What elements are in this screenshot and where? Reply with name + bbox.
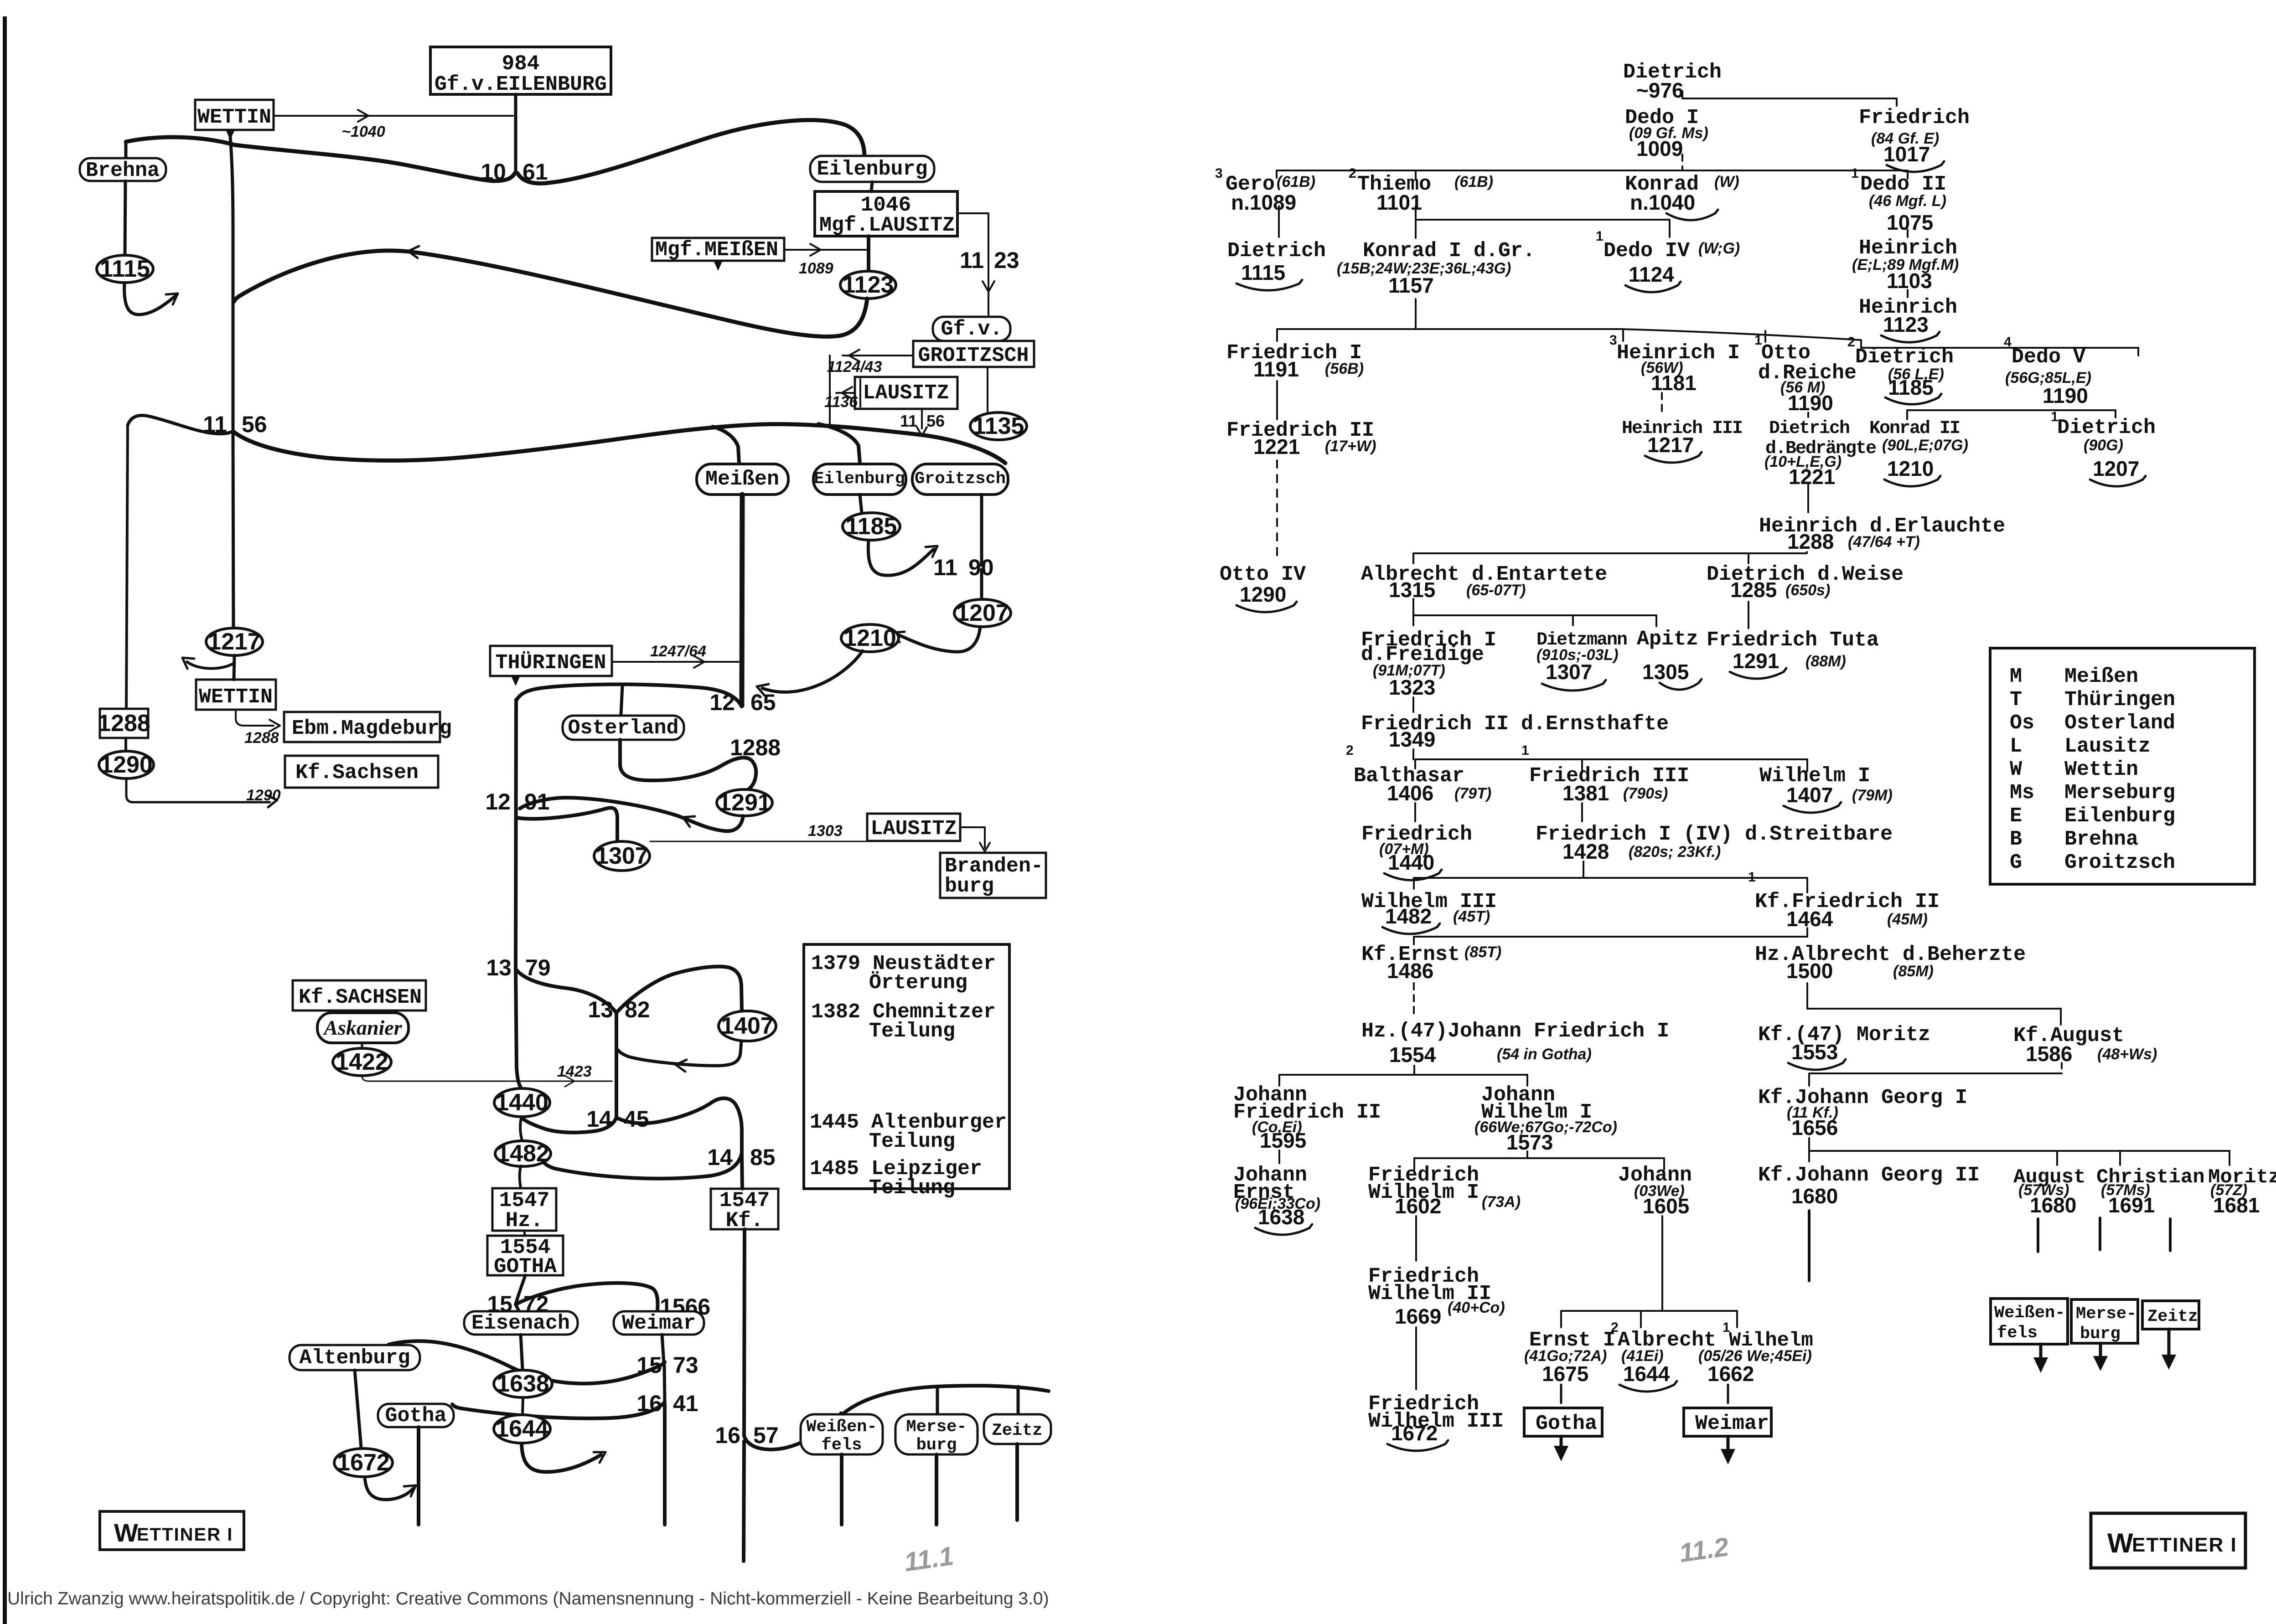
wire 1662 down bbox=[1727, 1385, 1729, 1403]
arrowhead 1136 bbox=[842, 387, 852, 393]
svg-text:1288: 1288 bbox=[98, 710, 150, 737]
svg-text:GROITZSCH: GROITZSCH bbox=[918, 344, 1029, 367]
svg-text:1: 1 bbox=[1851, 166, 1859, 181]
svg-text:1315: 1315 bbox=[1389, 578, 1435, 602]
svg-text:(61B): (61B) bbox=[1454, 173, 1493, 191]
svg-text:1307: 1307 bbox=[595, 843, 648, 869]
ellipse 1644 bbox=[494, 1415, 550, 1443]
svg-text:1691: 1691 bbox=[2108, 1193, 2155, 1217]
svg-text:Hz.(47)Johann Friedrich I: Hz.(47)Johann Friedrich I bbox=[1361, 1020, 1669, 1043]
svg-text:Ebm.Magdeburg: Ebm.Magdeburg bbox=[292, 717, 452, 740]
arrow below Gotha bbox=[1560, 1436, 1563, 1453]
svg-text:1605: 1605 bbox=[1643, 1194, 1689, 1218]
wire Streitbare children line bbox=[1414, 878, 1807, 892]
wire GROITZSCH down to 1135 bbox=[987, 367, 988, 412]
ellipse 1217 bbox=[206, 628, 263, 655]
wire 1657 swoosh to Weissenfels/Merseburg/Zeitz bbox=[744, 1386, 1049, 1449]
svg-text:Dietrich: Dietrich bbox=[2057, 416, 2156, 439]
svg-text:11: 11 bbox=[933, 555, 957, 580]
stadium Eilenburg (2nd) bbox=[813, 464, 906, 495]
arrowhead 1644 tail bbox=[600, 1452, 605, 1463]
wire THUERINGEN 1247/64 arrow bbox=[612, 661, 739, 663]
box 1288 bbox=[100, 709, 148, 738]
svg-text:45: 45 bbox=[624, 1106, 649, 1132]
box 1547 Hz. bbox=[492, 1188, 556, 1231]
wire dashed Friedrich II to Otto IV bbox=[1276, 460, 1278, 561]
svg-text:1288: 1288 bbox=[244, 729, 279, 747]
svg-text:1103: 1103 bbox=[1887, 269, 1932, 293]
svg-text:Gotha: Gotha bbox=[1536, 1412, 1597, 1435]
svg-text:Kf.(47) Moritz: Kf.(47) Moritz bbox=[1758, 1023, 1930, 1047]
arrowhead on 1123 swoosh bbox=[408, 246, 419, 251]
box LAUSITZ (2nd) bbox=[867, 814, 960, 841]
wire Dedo II column ticks bbox=[1907, 177, 1909, 297]
wire drop Zeitz bbox=[1017, 1387, 1020, 1417]
svg-text:L: L bbox=[2010, 735, 2022, 758]
box THUERINGEN bbox=[490, 646, 612, 676]
wire WETTIN to Eilenburg trunk (marriage ~1040) bbox=[274, 115, 513, 117]
arrow below Zeitz bbox=[2167, 1329, 2171, 1362]
wire 1303 to LAUSITZ2 bbox=[650, 841, 866, 842]
svg-text:T: T bbox=[2010, 688, 2022, 711]
box Kf.SACHSEN (Askanier) bbox=[293, 980, 426, 1010]
svg-text:Groitzsch: Groitzsch bbox=[2064, 851, 2175, 874]
svg-text:G: G bbox=[2010, 851, 2022, 874]
arrowhead 1089 bbox=[810, 250, 821, 256]
svg-text:(47/64 +T): (47/64 +T) bbox=[1848, 533, 1920, 551]
wire Groitzsch trunk bbox=[980, 495, 983, 565]
wire 1382 trunk down bbox=[615, 1014, 618, 1118]
wire Thueringen trunk down to 1379 bbox=[516, 700, 516, 969]
wire Friedrich III down bbox=[1581, 803, 1583, 821]
wire Askanier to 1422 bbox=[361, 1043, 363, 1048]
wire GROITZSCH 1124/43 return bbox=[843, 355, 913, 356]
wire trunk x511 (Wettin main line) bbox=[230, 137, 233, 429]
wire 1115 tail bbox=[124, 283, 175, 314]
wire 1675 down bbox=[1560, 1385, 1562, 1403]
svg-text:1185: 1185 bbox=[1888, 376, 1934, 399]
wire Ernsthafte children line bbox=[1413, 749, 1807, 771]
box 1554 GOTHA bbox=[487, 1236, 563, 1275]
wire drop to Meissen stadium bbox=[713, 427, 739, 463]
svg-text:Weißen-: Weißen- bbox=[1994, 1304, 2065, 1323]
svg-text:1190: 1190 bbox=[2043, 384, 2088, 407]
wire Heinrich I dashed to Heinrich III bbox=[1661, 393, 1663, 416]
svg-text:1595: 1595 bbox=[1260, 1129, 1306, 1152]
svg-text:Merse-: Merse- bbox=[906, 1418, 967, 1437]
box Kf.Sachsen bbox=[285, 756, 438, 788]
svg-text:Brehna: Brehna bbox=[86, 159, 160, 182]
svg-text:Kf.Sachsen: Kf.Sachsen bbox=[295, 761, 419, 784]
svg-text:Friedrich III: Friedrich III bbox=[1529, 764, 1689, 788]
svg-text:1124: 1124 bbox=[1629, 263, 1674, 286]
svg-text:1305: 1305 bbox=[1642, 660, 1689, 684]
svg-text:79: 79 bbox=[525, 955, 551, 980]
svg-text:(40+Co): (40+Co) bbox=[1448, 1299, 1505, 1316]
wire drop to Eilenburg stadium bbox=[818, 424, 860, 463]
box WETTINER I (left) bbox=[100, 1511, 244, 1550]
svg-text:Teilung: Teilung bbox=[869, 1020, 955, 1043]
wire 1482 to 1547 Hz bbox=[520, 1166, 521, 1188]
svg-text:1675: 1675 bbox=[1542, 1362, 1588, 1386]
box Merseburg (right) bbox=[2071, 1299, 2138, 1343]
ellipse 1185 bbox=[843, 513, 900, 540]
svg-text:(650s): (650s) bbox=[1785, 582, 1830, 599]
arrowhead 1185 tail bbox=[932, 546, 937, 557]
arrowhead 1672 tail bbox=[411, 1485, 416, 1496]
wire Altenburg swoosh 1573 bbox=[388, 1341, 665, 1383]
wire Brehna to 1115 bbox=[125, 181, 125, 256]
pointer under THUERINGEN bbox=[512, 677, 520, 686]
svg-text:B: B bbox=[2010, 828, 2022, 851]
svg-text:13: 13 bbox=[486, 955, 512, 980]
wire Johann children line bbox=[1561, 1311, 1737, 1327]
wire dashed below 1009 bbox=[1681, 155, 1683, 170]
wire 1136 arrow from LAUSITZ bbox=[836, 392, 855, 394]
svg-text:1217: 1217 bbox=[208, 629, 261, 655]
wire Merseburg tail bbox=[935, 1454, 938, 1525]
box Gotha (right) bbox=[1524, 1408, 1602, 1436]
wire 1207 tail bbox=[897, 627, 980, 652]
svg-text:56: 56 bbox=[926, 412, 945, 430]
smile under 1217 (right) bbox=[1645, 452, 1702, 463]
svg-text:Konrad I d.Gr.: Konrad I d.Gr. bbox=[1363, 239, 1535, 263]
svg-text:Hz.: Hz. bbox=[506, 1209, 543, 1232]
wire Thiemo children line bbox=[1416, 206, 1670, 238]
svg-text:41: 41 bbox=[673, 1391, 698, 1416]
svg-text:1672: 1672 bbox=[337, 1449, 390, 1476]
svg-text:LAUSITZ: LAUSITZ bbox=[863, 382, 949, 405]
svg-text:1638: 1638 bbox=[1258, 1205, 1304, 1229]
ellipse 1482 bbox=[495, 1141, 551, 1166]
svg-text:Ms: Ms bbox=[2010, 781, 2034, 804]
svg-text:Osterland: Osterland bbox=[2064, 711, 2175, 735]
wire 1641 sweep to Gotha bbox=[452, 1402, 665, 1418]
svg-text:1440: 1440 bbox=[1388, 851, 1434, 874]
svg-text:1680: 1680 bbox=[2030, 1193, 2076, 1217]
smile under 1123 (right) bbox=[1881, 332, 1940, 342]
svg-text:1680: 1680 bbox=[1791, 1184, 1838, 1208]
box legend territories bbox=[1990, 648, 2255, 884]
svg-text:Lausitz: Lausitz bbox=[2064, 735, 2151, 758]
svg-text:1290: 1290 bbox=[1240, 583, 1286, 606]
svg-text:(46 Mgf. L): (46 Mgf. L) bbox=[1869, 192, 1946, 210]
svg-text:11: 11 bbox=[900, 412, 917, 430]
smile under n.1040 bbox=[1666, 210, 1718, 220]
wire into Brehna bbox=[124, 142, 128, 158]
wire WETTIN2 to Ebm.Magdeburg bbox=[236, 710, 274, 726]
stadium Groitzsch bbox=[912, 464, 1008, 495]
svg-text:57: 57 bbox=[753, 1423, 779, 1448]
wire 1221 to Erlauchte bbox=[1807, 485, 1809, 512]
wire 1123 return swoosh to left trunk bbox=[234, 251, 867, 337]
arrowhead 1423 bbox=[565, 1081, 574, 1087]
svg-text:1428: 1428 bbox=[1562, 840, 1609, 863]
svg-text:1207: 1207 bbox=[2093, 457, 2139, 480]
arrowhead 1217 return bbox=[182, 658, 194, 659]
svg-text:2: 2 bbox=[1847, 335, 1855, 350]
stadium Eisenach bbox=[464, 1311, 578, 1335]
wire 1485 sweep to 1482 bbox=[543, 1153, 742, 1179]
ellipse 1291 bbox=[717, 789, 772, 816]
box Zeitz (right) bbox=[2142, 1301, 2199, 1329]
svg-text:1288: 1288 bbox=[1787, 530, 1834, 553]
ellipse 1422 bbox=[333, 1048, 391, 1076]
wire 1210 tail to Meissen trunk bbox=[762, 651, 863, 692]
svg-text:Kf.Johann Georg II: Kf.Johann Georg II bbox=[1758, 1164, 1980, 1187]
wire dashed under 1586 bbox=[2061, 1063, 2063, 1072]
smile under 1440 (right) bbox=[1384, 870, 1442, 880]
smile under 1207 (right) bbox=[2090, 476, 2146, 486]
svg-text:1017: 1017 bbox=[1883, 142, 1930, 166]
svg-text:Thüringen: Thüringen bbox=[2064, 688, 2175, 711]
svg-text:1207: 1207 bbox=[956, 600, 1009, 626]
ellipse 1638 bbox=[494, 1370, 552, 1397]
svg-text:Merse-: Merse- bbox=[2076, 1304, 2136, 1324]
stadium Gotha bbox=[378, 1404, 454, 1427]
svg-text:Kf.Friedrich II: Kf.Friedrich II bbox=[1755, 890, 1940, 913]
wire left vertical to 1288 box bbox=[126, 425, 128, 708]
wire Johann Georg I children line bbox=[1809, 1138, 2229, 1165]
wire 1638 to 1644 bbox=[522, 1397, 523, 1414]
svg-text:65: 65 bbox=[750, 690, 776, 715]
svg-text:Friedrich Tuta: Friedrich Tuta bbox=[1707, 629, 1879, 652]
pointer under WETTIN bbox=[226, 131, 234, 140]
wire Brehna-line merges 1156 bbox=[128, 415, 233, 433]
svg-text:ETTINER I: ETTINER I bbox=[2132, 1534, 2237, 1556]
wire 1217 return bbox=[187, 662, 234, 669]
wire to Johann Georg I bbox=[1809, 1073, 2062, 1086]
svg-text:3: 3 bbox=[1609, 333, 1617, 348]
box GROITZSCH bbox=[913, 341, 1034, 367]
stadium Osterland bbox=[563, 716, 684, 740]
svg-text:n.1089: n.1089 bbox=[1231, 191, 1296, 214]
wire Albrecht children line bbox=[1413, 599, 1656, 626]
svg-text:ETTINER I: ETTINER I bbox=[137, 1525, 233, 1545]
wire 1288 to 1290 bbox=[124, 738, 127, 750]
svg-text:1221: 1221 bbox=[1789, 465, 1835, 489]
svg-text:Meißen: Meißen bbox=[2064, 665, 2138, 688]
svg-text:W: W bbox=[2107, 1528, 2133, 1558]
arrowhead 1210 tail bbox=[757, 684, 769, 686]
svg-text:LAUSITZ: LAUSITZ bbox=[870, 817, 957, 840]
wire 1185 tail S-curve bbox=[868, 540, 934, 575]
arrowhead on ~1040 wire bbox=[358, 116, 368, 122]
wire 1595 down bbox=[1278, 1150, 1280, 1163]
svg-text:1210: 1210 bbox=[843, 625, 896, 651]
svg-text:56: 56 bbox=[242, 412, 267, 437]
svg-text:M: M bbox=[2010, 665, 2022, 688]
svg-text:1638: 1638 bbox=[497, 1371, 549, 1397]
svg-text:Weimar: Weimar bbox=[1695, 1412, 1769, 1435]
svg-text:1407: 1407 bbox=[721, 1013, 774, 1039]
svg-text:1: 1 bbox=[1596, 229, 1604, 244]
svg-text:Kf.SACHSEN: Kf.SACHSEN bbox=[299, 986, 422, 1009]
wire drop to Osterland bbox=[621, 686, 622, 715]
svg-text:W: W bbox=[114, 1518, 138, 1547]
svg-text:Gf.v.: Gf.v. bbox=[941, 318, 1002, 341]
wire dashed Ernst to Johann Friedrich bbox=[1413, 983, 1415, 1017]
svg-text:Groitzsch: Groitzsch bbox=[915, 469, 1006, 489]
svg-text:(W): (W) bbox=[1714, 173, 1739, 191]
ellipse 1207 bbox=[954, 599, 1011, 627]
smile under 1291 (right) bbox=[1730, 668, 1786, 679]
svg-text:burg: burg bbox=[2080, 1325, 2121, 1344]
svg-text:1291: 1291 bbox=[718, 789, 771, 816]
wire Weissenfels tail bbox=[840, 1454, 843, 1525]
svg-text:1553: 1553 bbox=[1791, 1040, 1838, 1064]
wire Eilenburg2 to 1185 bbox=[860, 495, 862, 513]
wire GOTHA trunk bbox=[516, 1275, 525, 1304]
wire generation line (Gero/Thiemo/Konrad/Dedo II) bbox=[1277, 170, 1908, 178]
wire Hz to 1554 bbox=[524, 1231, 525, 1236]
wire Christian down bbox=[2099, 1218, 2101, 1250]
svg-text:1464: 1464 bbox=[1786, 907, 1833, 931]
svg-text:23: 23 bbox=[994, 247, 1019, 273]
stadium Altenburg bbox=[290, 1345, 420, 1370]
svg-text:1: 1 bbox=[1521, 743, 1529, 758]
svg-text:91: 91 bbox=[524, 789, 550, 815]
svg-text:Dedo V: Dedo V bbox=[2012, 345, 2085, 369]
wire Zeitz tail bbox=[1015, 1444, 1019, 1520]
svg-text:1669: 1669 bbox=[1395, 1304, 1441, 1328]
svg-text:Weimar: Weimar bbox=[622, 1312, 696, 1335]
svg-text:1123: 1123 bbox=[1883, 313, 1929, 336]
svg-text:~1040: ~1040 bbox=[341, 123, 385, 140]
stadium Merseburg bbox=[895, 1414, 978, 1454]
svg-text:Dietrich: Dietrich bbox=[1227, 239, 1326, 263]
arrowhead to Brandenburg bbox=[980, 843, 985, 851]
svg-text:1440: 1440 bbox=[496, 1089, 548, 1116]
svg-text:burg: burg bbox=[916, 1436, 957, 1455]
wire 1291 return to trunk bbox=[520, 798, 743, 831]
wire Groitzsch trunk to 1207 bbox=[980, 570, 983, 597]
wire trunk into 1440 bbox=[516, 969, 521, 1088]
svg-text:1075: 1075 bbox=[1887, 211, 1933, 234]
svg-text:1644: 1644 bbox=[496, 1416, 548, 1442]
smile under 1482 (right) bbox=[1382, 923, 1440, 934]
wire 1379 swoosh (Neustaedter Oerterung) bbox=[516, 967, 742, 1013]
wire Balthasar down bbox=[1414, 803, 1416, 821]
svg-text:Eilenburg: Eilenburg bbox=[2064, 804, 2175, 828]
svg-text:(85M): (85M) bbox=[1893, 963, 1934, 980]
svg-text:Dietrich: Dietrich bbox=[1769, 418, 1849, 439]
wire Friedrich II dashed to Otto IV bbox=[1276, 381, 1278, 419]
svg-text:1: 1 bbox=[1748, 870, 1756, 885]
wire trunk to 1217 bbox=[233, 433, 233, 628]
arrowhead 1291 return bbox=[683, 816, 695, 817]
svg-text:1644: 1644 bbox=[1623, 1362, 1670, 1386]
wire Erlauchte children line bbox=[1413, 552, 1807, 563]
svg-text:85: 85 bbox=[750, 1145, 776, 1170]
svg-text:1407: 1407 bbox=[1786, 783, 1833, 807]
wire Albrecht children line bbox=[1807, 983, 2061, 1025]
wire Osterland loop 1288 to 1291 bbox=[620, 740, 756, 790]
box Brandenburg bbox=[940, 853, 1046, 898]
wire drop Merseburg bbox=[936, 1387, 939, 1417]
smile under 1210 (right) bbox=[1884, 476, 1940, 486]
svg-text:Zeitz: Zeitz bbox=[2147, 1307, 2198, 1326]
svg-text:(85T): (85T) bbox=[1464, 943, 1501, 961]
svg-text:Eilenburg: Eilenburg bbox=[814, 469, 905, 489]
wire 1046 trunk to 1123 bbox=[867, 236, 870, 271]
wire Meissen trunk down bbox=[742, 495, 742, 706]
arrowhead down 1123 bbox=[983, 281, 988, 292]
svg-text:(54 in Gotha): (54 in Gotha) bbox=[1497, 1046, 1592, 1063]
box 1547 Kf. bbox=[711, 1189, 778, 1229]
svg-text:~976: ~976 bbox=[1636, 78, 1684, 102]
svg-text:1291: 1291 bbox=[1733, 649, 1779, 673]
stadium Zeitz bbox=[984, 1414, 1051, 1444]
svg-text:burg: burg bbox=[945, 875, 994, 898]
svg-text:1009: 1009 bbox=[1636, 137, 1683, 160]
box LAUSITZ (1st) bbox=[855, 377, 957, 409]
smile under 1638 (right) bbox=[1255, 1224, 1312, 1235]
svg-text:1349: 1349 bbox=[1389, 727, 1435, 751]
wire vertical return line x1820 bbox=[829, 356, 831, 428]
svg-text:(65-07T): (65-07T) bbox=[1466, 582, 1526, 599]
smile under 1185 bbox=[1885, 394, 1941, 404]
svg-text:82: 82 bbox=[625, 997, 650, 1022]
box legend (Teilungen) bbox=[804, 944, 1009, 1189]
smile under 1407 (right) bbox=[1784, 802, 1841, 813]
svg-text:Gf.v.EILENBURG: Gf.v.EILENBURG bbox=[435, 73, 607, 96]
svg-text:1381: 1381 bbox=[1562, 781, 1609, 805]
svg-text:Askanier: Askanier bbox=[322, 1016, 402, 1039]
arrow below Weissenfels bbox=[2039, 1344, 2043, 1365]
wire Dietrich children line bbox=[1682, 91, 1897, 106]
stadium Brehna bbox=[80, 158, 166, 181]
svg-text:Dedo IV: Dedo IV bbox=[1604, 239, 1690, 263]
smile under 1115 bbox=[1236, 280, 1302, 290]
svg-text:Örterung: Örterung bbox=[869, 971, 967, 995]
wire drop Weissenfels bbox=[841, 1413, 842, 1417]
wire Otto tick bbox=[1807, 412, 1809, 417]
ellipse 1290 bbox=[99, 751, 154, 778]
wire LAUSITZ down 1156 bbox=[921, 409, 923, 428]
stadium Weimar bbox=[614, 1311, 704, 1335]
svg-text:1185: 1185 bbox=[846, 513, 897, 540]
svg-text:16: 16 bbox=[715, 1423, 740, 1448]
svg-text:3: 3 bbox=[1215, 166, 1223, 181]
svg-text:1573: 1573 bbox=[1506, 1130, 1553, 1154]
ellipse 1672 bbox=[334, 1449, 393, 1477]
svg-text:(45T): (45T) bbox=[1453, 908, 1490, 925]
svg-text:Wettin: Wettin bbox=[2064, 758, 2138, 781]
wire trunk below 984 box bbox=[514, 94, 517, 174]
box 984 Gf.v.EILENBURG bbox=[430, 47, 611, 94]
ellipse 1307 bbox=[594, 841, 650, 871]
svg-text:fels: fels bbox=[822, 1436, 862, 1455]
svg-text:1482: 1482 bbox=[1385, 904, 1432, 928]
svg-text:Gotha: Gotha bbox=[385, 1404, 446, 1428]
svg-text:Zeitz: Zeitz bbox=[992, 1421, 1042, 1440]
svg-text:11: 11 bbox=[960, 247, 984, 273]
wire Wilhelm III / Kf.Friedrich II children line bbox=[1414, 928, 1807, 944]
svg-text:1285: 1285 bbox=[1730, 578, 1777, 602]
wire 1445 right branch bbox=[616, 1098, 742, 1152]
ellipse 1407 bbox=[719, 1011, 776, 1041]
svg-text:1323: 1323 bbox=[1389, 675, 1435, 699]
smile under 1672 (right) bbox=[1387, 1440, 1448, 1451]
wire long 1156 swoosh to right page bbox=[234, 424, 1005, 463]
box Ebm.Magdeburg bbox=[284, 712, 440, 742]
arrowhead to Kf.Sachsen bbox=[268, 800, 277, 807]
wire 1323 down bbox=[1412, 697, 1414, 712]
wire Weimar trunk end bbox=[663, 1404, 667, 1525]
svg-text:1500: 1500 bbox=[1786, 959, 1833, 983]
svg-text:1190: 1190 bbox=[1788, 391, 1833, 415]
